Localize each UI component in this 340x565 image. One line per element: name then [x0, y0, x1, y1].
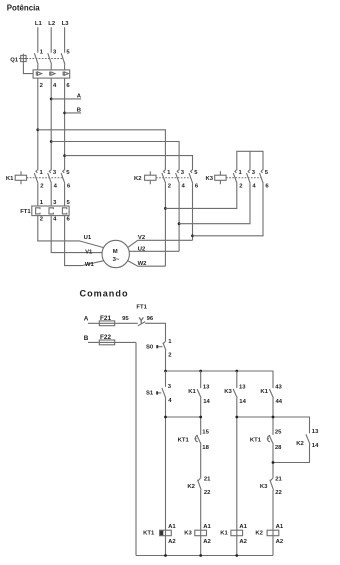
- svg-text:1: 1: [40, 170, 44, 176]
- svg-text:6: 6: [66, 83, 70, 89]
- wire K3 NC down to K2 coil: [272, 490, 274, 556]
- svg-text:W2: W2: [138, 261, 148, 267]
- wire bottom rail: [136, 555, 273, 557]
- svg-text:6: 6: [67, 184, 71, 190]
- coil KT1 (timer): [143, 524, 176, 545]
- svg-text:28: 28: [275, 445, 282, 451]
- wire FT1 to motor V1: [51, 216, 102, 253]
- breaker Q1 trip element I> pole1: [36, 72, 41, 76]
- wire K2 pole2 down: [178, 183, 180, 251]
- svg-text:1: 1: [167, 170, 171, 176]
- node B tap: [63, 112, 66, 115]
- svg-text:6: 6: [265, 184, 269, 190]
- node rail K3: [199, 554, 202, 557]
- svg-text:2: 2: [239, 184, 243, 190]
- wire bus to S1: [165, 371, 167, 387]
- wire K1 contact down: [200, 398, 202, 435]
- svg-text:14: 14: [239, 399, 246, 405]
- node A tap: [50, 98, 53, 101]
- wire S1 down to KT1 coil: [165, 398, 167, 555]
- wire FT1 to motor U1: [38, 216, 104, 248]
- fuse F21: [99, 315, 114, 326]
- svg-text:2: 2: [168, 184, 172, 190]
- wire L2 drop: [50, 27, 52, 53]
- svg-text:W1: W1: [85, 262, 95, 268]
- wire phase2 Q1 to K1: [50, 78, 52, 170]
- contact K1 43-44 NO: [260, 385, 282, 405]
- svg-text:M: M: [113, 249, 118, 255]
- svg-text:KT1: KT1: [143, 530, 155, 536]
- svg-text:13: 13: [239, 385, 246, 391]
- svg-text:K2: K2: [187, 484, 195, 490]
- svg-text:KT1: KT1: [178, 437, 190, 443]
- svg-text:A1: A1: [203, 524, 211, 530]
- svg-text:3: 3: [53, 49, 57, 55]
- wire phase3 K1 to FT1: [64, 183, 66, 206]
- breaker Q1 linkage dashed: [26, 58, 62, 60]
- contact KT1 15-18 timed NO: [178, 430, 210, 451]
- contact KT1 25-28 timed NO: [250, 430, 282, 451]
- svg-text:4: 4: [182, 184, 186, 190]
- svg-text:L3: L3: [62, 21, 70, 27]
- contactor K1 coil symbol: [6, 171, 27, 184]
- overload relay FT1 box: [32, 206, 69, 216]
- wire motor U2 to K2 pole2: [129, 250, 179, 252]
- contactor K2 pole 3: [189, 170, 199, 190]
- breaker Q1 trip element I> pole2: [50, 72, 55, 76]
- contactor K3 pole 1: [233, 170, 243, 190]
- svg-text:5: 5: [66, 49, 70, 55]
- svg-text:A2: A2: [276, 539, 284, 545]
- svg-text:B: B: [84, 335, 89, 342]
- svg-text:15: 15: [202, 430, 209, 436]
- contactor K3 pole 3: [260, 170, 270, 190]
- svg-text:5: 5: [265, 170, 269, 176]
- svg-text:3~: 3~: [113, 257, 120, 263]
- svg-text:A2: A2: [203, 539, 211, 545]
- svg-text:Potência: Potência: [7, 3, 40, 12]
- wire bus to K1 contact: [200, 371, 202, 388]
- wire link K2 pole1 to K3 pole1: [165, 183, 236, 208]
- svg-text:S0: S0: [146, 344, 154, 350]
- svg-text:V1: V1: [85, 249, 93, 255]
- svg-text:13: 13: [312, 429, 319, 435]
- wire K3 contact down to K1 coil: [236, 398, 238, 556]
- wire phase2 K1 to FT1: [50, 183, 52, 206]
- svg-text:Q1: Q1: [10, 57, 19, 63]
- wire KT1 contact down: [200, 444, 202, 477]
- overload FT1 element pole1: [36, 208, 40, 214]
- svg-text:K2: K2: [296, 441, 304, 447]
- svg-text:22: 22: [275, 490, 282, 496]
- svg-text:3: 3: [168, 384, 172, 390]
- node feeder3 junction: [63, 154, 66, 157]
- contactor K3 linkage dashed: [226, 177, 261, 179]
- wire F22 down left rail: [135, 342, 137, 555]
- wire K2 pole1 down: [164, 183, 166, 266]
- wire motor W2 to K2 pole1: [128, 261, 166, 267]
- svg-text:5: 5: [194, 170, 198, 176]
- wire bus to K3 contact: [236, 371, 238, 388]
- svg-text:14: 14: [203, 399, 210, 405]
- wire link K2 pole2 to K3 pole2: [179, 183, 250, 223]
- wire K1 43-44 down: [272, 398, 274, 435]
- coil K2: [255, 524, 283, 545]
- wire control bus: [166, 371, 274, 388]
- svg-text:96: 96: [147, 316, 154, 322]
- svg-text:2: 2: [40, 184, 44, 190]
- contactor K2 coil symbol: [134, 171, 156, 184]
- wire S0 to bus: [165, 350, 167, 371]
- contact K3 21-22 NC: [260, 476, 283, 496]
- wire A tap: [51, 98, 81, 100]
- svg-text:95: 95: [122, 316, 129, 322]
- svg-text:21: 21: [275, 476, 282, 482]
- svg-text:1: 1: [40, 49, 44, 55]
- svg-text:S1: S1: [146, 391, 154, 397]
- wire phase3 Q1 to K1: [64, 78, 66, 170]
- wire motor V2 to K2 pole3: [128, 240, 193, 247]
- svg-text:2: 2: [168, 353, 172, 359]
- svg-text:L1: L1: [35, 21, 43, 27]
- svg-text:3: 3: [53, 200, 57, 206]
- svg-text:4: 4: [168, 398, 172, 404]
- svg-text:A: A: [77, 93, 82, 99]
- svg-text:A1: A1: [168, 524, 176, 530]
- contact FT1 95-96 NC thermal: [138, 317, 145, 326]
- contactor K3 coil symbol: [206, 171, 227, 184]
- svg-text:4: 4: [54, 184, 58, 190]
- node feeder1 junction: [36, 128, 39, 131]
- svg-text:U2: U2: [138, 246, 146, 252]
- svg-text:K2: K2: [255, 530, 263, 536]
- contactor K2 pole 1: [162, 170, 172, 190]
- svg-text:4: 4: [53, 217, 57, 223]
- wire FT1 to S0: [145, 323, 165, 341]
- wire feeder1 to K2 pole1: [38, 130, 166, 171]
- contact K2 13-14 NO: [296, 429, 319, 449]
- svg-text:K3: K3: [184, 530, 192, 536]
- contactor K1 pole 2: [48, 170, 58, 190]
- contact K3 13-14 NO: [224, 385, 246, 405]
- pushbutton S1 NO: [146, 384, 172, 404]
- svg-text:22: 22: [204, 490, 211, 496]
- breaker Q1 trip unit box: [33, 70, 70, 78]
- svg-text:2: 2: [40, 217, 44, 223]
- pushbutton S0 NC: [146, 339, 172, 359]
- svg-text:A: A: [84, 316, 89, 323]
- coil K3: [184, 524, 211, 545]
- overload FT1 element pole3: [62, 208, 66, 214]
- node branch mid: [272, 416, 275, 419]
- wire link K2 pole3 to K3 pole3: [193, 183, 264, 236]
- node rail KT1: [164, 554, 167, 557]
- wire Q1 operator link: [23, 63, 33, 73]
- svg-text:K1: K1: [220, 530, 228, 536]
- wire phase1 K1 to FT1: [37, 183, 39, 206]
- breaker Q1 operator symbol: [19, 54, 28, 64]
- svg-text:K1: K1: [188, 389, 196, 395]
- svg-text:5: 5: [66, 170, 70, 176]
- svg-text:K2: K2: [134, 176, 142, 182]
- node K2 pole3 link junction: [191, 234, 194, 237]
- svg-text:6: 6: [195, 184, 199, 190]
- svg-text:25: 25: [275, 430, 282, 436]
- wire L3 drop: [64, 27, 66, 53]
- svg-text:2: 2: [40, 83, 44, 89]
- svg-text:3: 3: [252, 170, 256, 176]
- node bus-S1 junction: [164, 370, 167, 373]
- node bus-K3 junction: [235, 370, 238, 373]
- svg-text:FT1: FT1: [20, 209, 31, 215]
- wire phase1 Q1 to K1: [37, 78, 39, 170]
- breaker Q1 pole 2: [48, 49, 57, 70]
- wire feeder3 to K2 pole3: [65, 156, 193, 171]
- svg-text:KT1: KT1: [250, 437, 262, 443]
- contact K2 21-22 NC: [187, 476, 211, 496]
- wire K2 13-14 down and return: [273, 444, 310, 463]
- wire K3 star bridge: [237, 151, 263, 170]
- node branch return: [272, 461, 275, 464]
- wire K2 pole3 down: [192, 183, 194, 240]
- svg-text:14: 14: [312, 443, 319, 449]
- svg-text:4: 4: [252, 184, 256, 190]
- svg-text:43: 43: [275, 385, 282, 391]
- coil K1: [220, 524, 247, 545]
- node rail K1: [235, 554, 238, 557]
- svg-text:18: 18: [202, 445, 209, 451]
- svg-text:3: 3: [53, 170, 57, 176]
- fuse F22: [99, 334, 114, 345]
- breaker Q1 trip element I> pole3: [63, 72, 68, 76]
- wire branch to K2 13-14: [237, 417, 310, 433]
- svg-text:5: 5: [67, 200, 71, 206]
- svg-text:B: B: [77, 107, 81, 113]
- svg-text:K1: K1: [6, 176, 14, 182]
- contactor K1 pole 3: [61, 170, 71, 190]
- contactor K2 pole 2: [176, 170, 186, 190]
- node branch left: [235, 416, 238, 419]
- overload FT1 element pole2: [49, 208, 53, 214]
- contactor K2 linkage dashed: [156, 177, 191, 179]
- svg-text:U1: U1: [84, 235, 92, 241]
- svg-text:A1: A1: [239, 524, 247, 530]
- svg-text:K3: K3: [206, 176, 214, 182]
- svg-text:1: 1: [168, 339, 172, 345]
- svg-text:L2: L2: [48, 21, 56, 27]
- wire B tap: [65, 112, 82, 114]
- contactor K1 linkage dashed: [27, 177, 63, 179]
- node bus-K1 junction: [199, 370, 202, 373]
- contact K1 13-14 NO: [188, 385, 210, 405]
- wire L1 drop: [37, 27, 39, 53]
- svg-text:A1: A1: [276, 524, 284, 530]
- wire seal-in branch: [166, 416, 201, 418]
- svg-text:13: 13: [203, 385, 210, 391]
- wire A to F21: [88, 322, 138, 324]
- svg-text:V2: V2: [138, 235, 146, 241]
- svg-text:FT1: FT1: [136, 305, 147, 311]
- wire feeder2 to K2 pole2: [51, 142, 179, 171]
- svg-text:K3: K3: [260, 484, 268, 490]
- wire B to F22: [88, 341, 136, 343]
- svg-text:1: 1: [239, 170, 243, 176]
- wire FT1 to motor W1: [65, 216, 104, 266]
- wire KT1 25-28 down: [272, 444, 274, 477]
- node seal-in left: [164, 416, 167, 419]
- svg-text:21: 21: [204, 476, 211, 482]
- svg-text:3: 3: [181, 170, 185, 176]
- breaker Q1 pole 1: [34, 49, 43, 70]
- svg-text:K1: K1: [260, 389, 268, 395]
- svg-text:6: 6: [67, 217, 71, 223]
- node K2 pole1 link junction: [164, 207, 167, 210]
- node seal-in right: [199, 416, 202, 419]
- motor M 3~: [102, 240, 129, 267]
- contactor K3 pole 2: [247, 170, 257, 190]
- svg-text:44: 44: [276, 399, 283, 405]
- svg-text:Comando: Comando: [80, 289, 128, 299]
- svg-text:K3: K3: [224, 389, 232, 395]
- svg-text:A2: A2: [168, 539, 176, 545]
- svg-text:1: 1: [40, 200, 44, 206]
- svg-text:4: 4: [53, 83, 57, 89]
- svg-text:A2: A2: [239, 539, 247, 545]
- wire K2 NC down to K3 coil: [200, 490, 202, 556]
- node feeder2 junction: [50, 140, 53, 143]
- breaker Q1 pole 3: [61, 49, 70, 70]
- node K2 pole2 link junction: [178, 222, 181, 225]
- contactor K1 pole 1: [34, 170, 44, 190]
